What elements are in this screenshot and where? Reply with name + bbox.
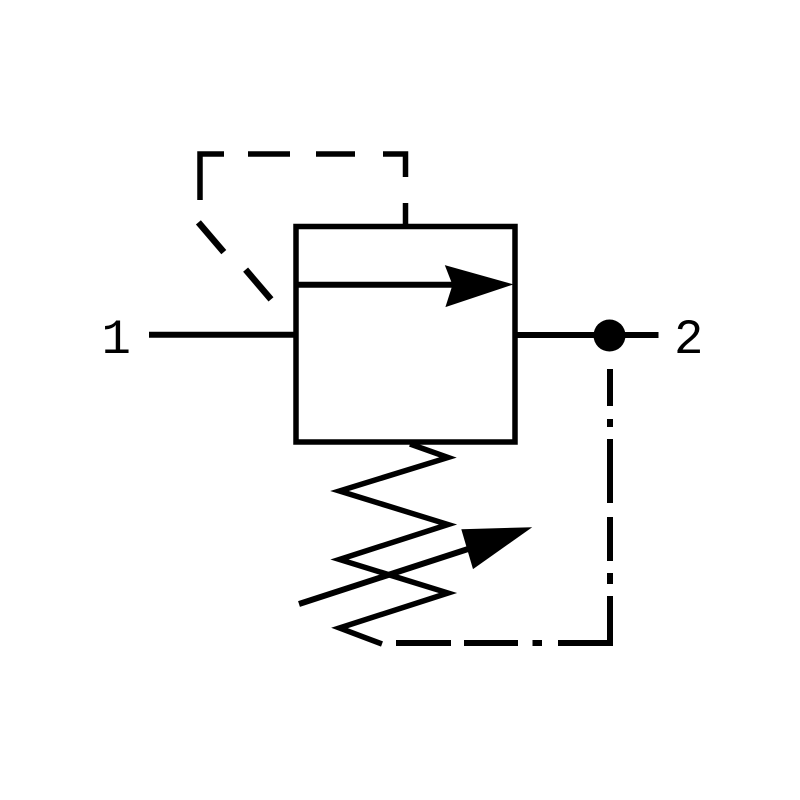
adjustment arrow shaft through spring bbox=[299, 544, 485, 605]
pilot line dashed: diagonal dash b bbox=[246, 270, 271, 300]
pilot line dashed: right vertical dash to valve top bbox=[403, 203, 409, 227]
valve body square bbox=[296, 227, 515, 443]
spring zigzag bbox=[340, 444, 449, 644]
drain line dash-dot: vertical dash 3 bbox=[607, 517, 613, 561]
svg-text:1: 1 bbox=[102, 312, 131, 368]
pilot line dashed: top-right corner dash bbox=[383, 154, 406, 177]
drain line dash-dot: vertical dot 2 bbox=[607, 573, 613, 584]
drain line dash-dot: vertical dash 1 bbox=[607, 369, 613, 406]
port 2 junction node bbox=[594, 320, 626, 352]
svg-text:2: 2 bbox=[674, 312, 703, 368]
drain line dash-dot: horizontal dot bbox=[533, 640, 543, 646]
pilot line dashed: top dash a bbox=[248, 151, 290, 157]
flow path arrow shaft inside valve bbox=[296, 282, 460, 288]
pilot line dashed: top-left corner dash bbox=[200, 154, 224, 200]
port 1 line bbox=[149, 332, 296, 338]
pilot line dashed: top dash b bbox=[316, 151, 355, 157]
drain line dash-dot: vertical dot 1 bbox=[607, 419, 613, 427]
flow path arrowhead bbox=[445, 265, 514, 307]
drain line dash-dot: horizontal dash 2 bbox=[464, 640, 518, 646]
adjustment arrowhead bbox=[461, 527, 532, 569]
drain line dash-dot: corner dash bbox=[558, 596, 610, 643]
pilot line dashed: diagonal dash a bbox=[198, 222, 223, 252]
drain line dash-dot: vertical dash 2 bbox=[607, 439, 613, 503]
port 2 line bbox=[515, 332, 659, 338]
drain line dash-dot: horizontal dash 3 bbox=[396, 640, 451, 646]
